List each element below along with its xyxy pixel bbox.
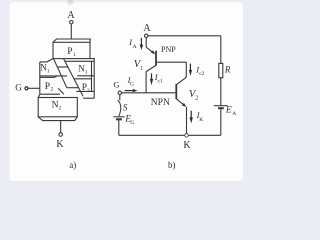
svg-text:E: E [225, 105, 232, 115]
svg-text:c2: c2 [199, 71, 204, 77]
svg-text:P: P [45, 82, 50, 92]
svg-text:R: R [224, 65, 231, 75]
svg-text:G: G [130, 120, 134, 126]
svg-text:2: 2 [51, 87, 54, 93]
svg-text:G: G [15, 83, 22, 93]
svg-text:1: 1 [73, 52, 76, 58]
svg-text:2: 2 [87, 88, 90, 94]
svg-text:c1: c1 [158, 78, 163, 84]
svg-text:2: 2 [195, 95, 198, 101]
svg-text:G: G [130, 82, 134, 88]
svg-text:K: K [183, 140, 191, 151]
svg-text:G: G [113, 79, 119, 89]
svg-text:P: P [67, 47, 72, 57]
svg-text:K: K [199, 117, 203, 123]
svg-text:A: A [133, 44, 137, 50]
svg-text:N: N [52, 100, 59, 110]
svg-text:K: K [56, 139, 64, 150]
svg-text:1: 1 [47, 69, 50, 75]
svg-text:a): a) [69, 160, 76, 170]
svg-text:b): b) [168, 160, 176, 170]
svg-text:1: 1 [85, 70, 88, 76]
svg-text:S: S [123, 103, 128, 113]
svg-text:NPN: NPN [151, 98, 170, 108]
svg-text:A: A [232, 111, 236, 117]
svg-text:PNP: PNP [161, 45, 176, 54]
svg-text:1: 1 [140, 66, 143, 72]
svg-text:A: A [143, 23, 151, 34]
svg-text:2: 2 [59, 105, 62, 111]
svg-text:A: A [67, 10, 75, 21]
